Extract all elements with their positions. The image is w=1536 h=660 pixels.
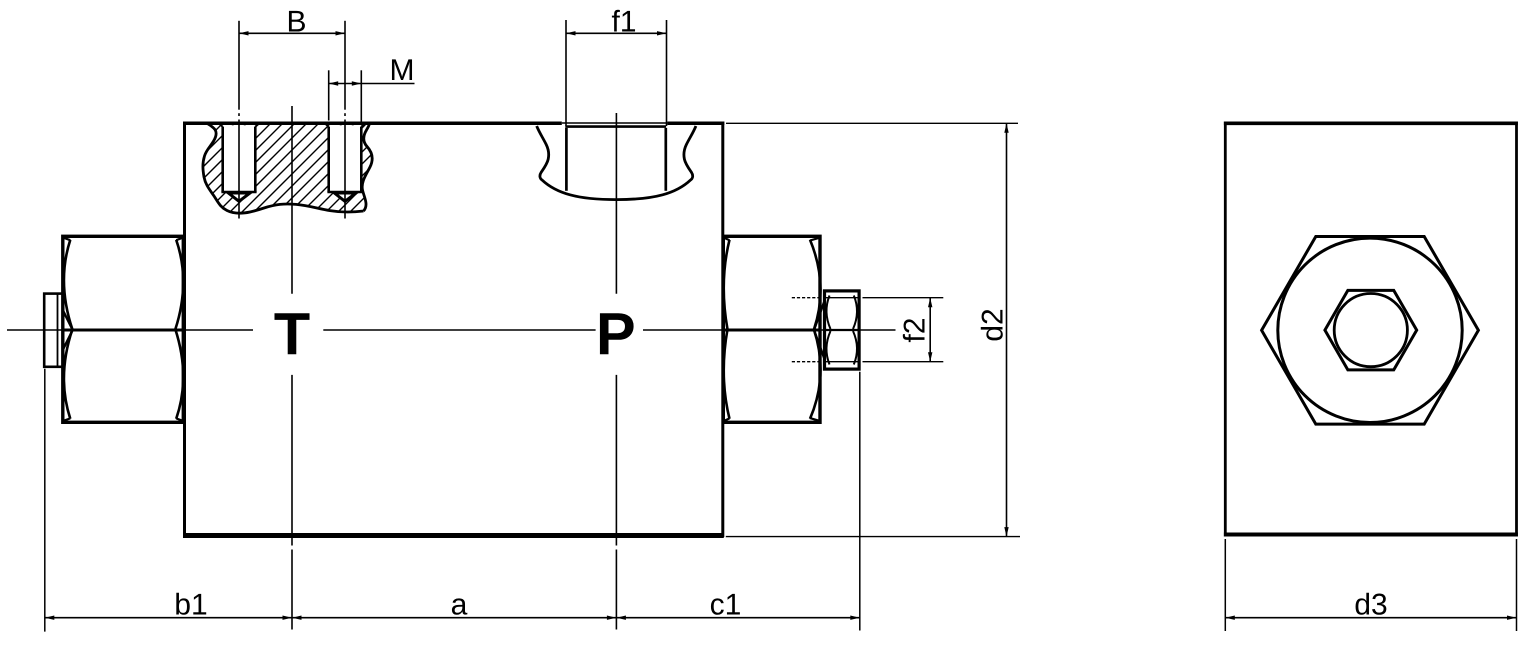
dimension f1 <box>566 10 667 126</box>
centerline of tapped hole 1 / B extension <box>238 21 240 219</box>
dimension f2 <box>863 298 944 362</box>
side view inner hex socket <box>1325 290 1417 370</box>
side view body outline <box>1224 122 1518 537</box>
side view inner circle <box>1334 294 1407 367</box>
bottom dimension extension lines <box>45 369 860 632</box>
port f1 cutaway (top middle) <box>537 126 696 200</box>
dimension a <box>292 598 616 620</box>
tapped hole 2 (right, under M) <box>325 123 366 201</box>
side view plug chamfer circle <box>1278 238 1462 422</box>
body outline <box>183 122 724 538</box>
left plug tip <box>44 294 63 367</box>
dimension c1 <box>616 594 859 620</box>
T port label <box>274 313 309 354</box>
dimension M <box>329 59 415 123</box>
right hex plug (P side) <box>723 236 824 422</box>
horizontal centerline through T and P <box>7 329 896 331</box>
vertical centerline of T port <box>291 106 293 630</box>
P port label <box>600 313 634 354</box>
vertical centerline of P port <box>615 113 617 630</box>
tapped hole 1 (left, under B) <box>219 123 260 201</box>
hidden thread dashes on right plug <box>792 298 820 362</box>
right plug small nut <box>825 291 860 369</box>
dimension b1 <box>45 593 292 620</box>
hatched local section around tapped holes <box>86 106 492 236</box>
centerline of tapped hole 2 / B extension <box>344 21 346 219</box>
dimension d2 <box>726 123 1020 536</box>
side view hex plug head <box>1262 236 1479 424</box>
left hex plug (T side) <box>63 236 184 422</box>
dimension B <box>239 11 345 36</box>
dimension d3 <box>1225 539 1516 631</box>
